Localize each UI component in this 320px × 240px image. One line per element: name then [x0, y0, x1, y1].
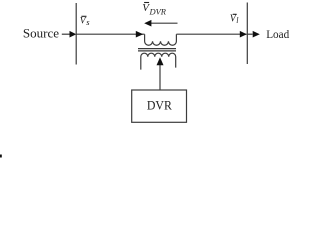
svg-text:Source: Source [23, 26, 59, 41]
transformer T1 core line 2 [138, 50, 176, 52]
arrowhead into right bus [240, 31, 247, 38]
transformer T1 primary winding [145, 34, 177, 45]
svg-text:DVR: DVR [147, 98, 173, 112]
arrowhead to load [253, 31, 260, 38]
transformer T1 secondary winding [141, 53, 176, 69]
wire DVR output to transformer [159, 65, 161, 90]
wire transformer to right bus [176, 33, 246, 35]
wire left bus to transformer [76, 33, 144, 35]
arrowhead DVR output pointing up [157, 57, 164, 65]
wire source arrow line [62, 33, 71, 35]
node left bus [75, 3, 77, 65]
label Vs overbar [81, 15, 86, 17]
arrowhead at transformer input [136, 31, 143, 38]
label Vl overbar [233, 13, 237, 15]
DVR box U1 [132, 90, 187, 122]
svg-text:Load: Load [266, 27, 289, 41]
svg-text:s: s [86, 17, 90, 27]
svg-text:DVR: DVR [149, 7, 167, 17]
wire injection arrow line [151, 22, 178, 24]
transformer T1 core line 1 [138, 48, 176, 50]
label VDVR overbar [144, 2, 149, 4]
node right bus [246, 3, 248, 65]
wire right bus to load [247, 33, 252, 35]
stray mark bottom left corner [0, 155, 2, 158]
arrowhead injection pointing left [144, 20, 151, 27]
svg-text:l: l [236, 16, 239, 25]
arrowhead into left bus [70, 31, 77, 38]
